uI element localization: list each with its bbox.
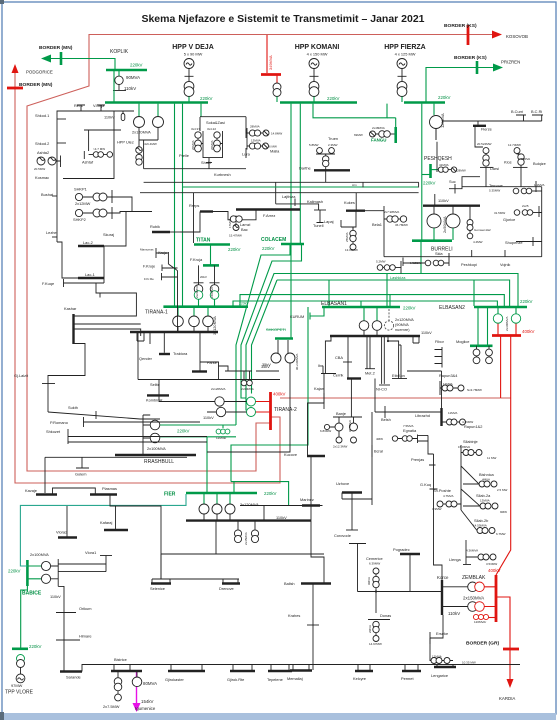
svg-text:ELBASAN2: ELBASAN2 xyxy=(439,305,465,311)
svg-text:F.Kuqe: F.Kuqe xyxy=(42,281,54,286)
bus F.KRUJA 220 xyxy=(203,264,219,267)
svg-text:KURUM: KURUM xyxy=(290,314,304,319)
svg-text:110kV: 110kV xyxy=(203,415,214,420)
svg-text:31.5MW: 31.5MW xyxy=(494,211,505,215)
bus F.ARREZ xyxy=(236,208,300,210)
component Darsi xyxy=(483,148,489,154)
wire border MN arrow line (outer red loop to Tirana-2) xyxy=(15,71,280,483)
component Gomsen1&2 xyxy=(469,206,471,219)
svg-text:Cerrik: Cerrik xyxy=(333,373,343,378)
svg-text:nuemre): nuemre) xyxy=(395,327,410,332)
bus Fierze 110 xyxy=(443,120,542,122)
svg-text:Ballsh: Ballsh xyxy=(284,581,295,586)
wire Vlora2 link xyxy=(66,506,68,538)
svg-text:Kajan: Kajan xyxy=(314,386,324,391)
transformer F.Kruja 20kV pair xyxy=(194,265,220,284)
transformer 2x120MVA Ulez circles xyxy=(134,117,145,128)
wire Vlore links xyxy=(58,556,106,572)
tick Shupenze xyxy=(532,237,534,246)
wire green south (Kurum-Fier) xyxy=(231,307,308,505)
wire Peshqesh-VDeja 220 link xyxy=(183,186,419,188)
wire Uznove spine xyxy=(342,412,372,505)
wire Selite line xyxy=(138,332,280,380)
svg-text:EtbKon: EtbKon xyxy=(392,373,405,378)
svg-text:90MVA: 90MVA xyxy=(126,75,140,80)
svg-text:220kV: 220kV xyxy=(29,644,42,649)
wire Kashar lines xyxy=(48,293,141,384)
wire Selenice trunk xyxy=(152,579,239,584)
svg-text:90+100MVA: 90+100MVA xyxy=(295,354,299,370)
bus BABICE 220 vertical xyxy=(26,560,29,586)
svg-text:20MVA: 20MVA xyxy=(191,140,195,150)
transformer Tirana2 bank2 110 side xyxy=(216,407,225,416)
svg-text:220kV: 220kV xyxy=(177,429,190,434)
svg-text:FANGU: FANGU xyxy=(371,138,386,143)
bottom band xyxy=(2,713,556,720)
wire Darsi-Klos-Bulqize line xyxy=(462,165,542,187)
bus TITAN 220 xyxy=(194,243,230,246)
svg-text:2x25: 2x25 xyxy=(522,204,529,208)
reactor Tirana2 12MVar coil xyxy=(222,425,224,428)
wire Vlore spine south xyxy=(58,586,64,671)
component 28MVA Malla cluster xyxy=(245,129,247,158)
wire border KS / Kosovo line (inner red loop) xyxy=(27,35,494,472)
wire Babice-TPP Vlore xyxy=(21,586,28,648)
bus Tepelene xyxy=(268,670,292,672)
svg-text:2x100MVA: 2x100MVA xyxy=(30,552,49,557)
svg-text:Kruje: Kruje xyxy=(158,250,167,255)
component Sllab-2b row xyxy=(477,528,483,534)
bus Met.2 xyxy=(365,368,375,370)
transformer Moglice circles xyxy=(477,346,490,357)
svg-text:Prenjas: Prenjas xyxy=(411,457,424,462)
svg-text:KOSOVOB: KOSOVOB xyxy=(506,34,528,39)
svg-text:Sarande: Sarande xyxy=(66,675,81,680)
wire VDeja Soka stub xyxy=(200,104,202,117)
svg-text:PODGORICE: PODGORICE xyxy=(26,70,53,75)
svg-text:BABICE: BABICE xyxy=(22,591,42,597)
wire Ibe line xyxy=(321,337,336,374)
wire Prizren border line xyxy=(426,68,494,103)
transformer Zemblak 2x150 xyxy=(442,587,468,607)
tick Kajan xyxy=(323,393,325,409)
svg-text:14.97MW: 14.97MW xyxy=(369,642,382,646)
arrowhead KOSOVOB right xyxy=(492,31,502,39)
svg-text:28MVA: 28MVA xyxy=(250,125,260,129)
bus ELBASAN1 220kV xyxy=(322,306,400,309)
svg-text:2x45MVA: 2x45MVA xyxy=(244,532,248,545)
wire Lac1 down to Kashar xyxy=(96,283,100,293)
tick KURUM xyxy=(309,313,311,320)
svg-text:Shutri: Shutri xyxy=(201,160,211,165)
wire Rreps trunk xyxy=(180,210,256,233)
bus Kavaje xyxy=(36,493,57,495)
transformer Komani 400/220 xyxy=(276,75,278,83)
svg-text:4MVA: 4MVA xyxy=(482,478,490,482)
wire 154kV Igumenice xyxy=(136,672,138,704)
component Egnatia xyxy=(392,436,397,441)
bus Babice 110 bar xyxy=(57,559,59,586)
wire Darthe down xyxy=(325,170,327,182)
tick G.Kuq xyxy=(429,465,438,489)
svg-text:Traktora: Traktora xyxy=(173,351,188,356)
component Sllabinje row xyxy=(463,450,469,456)
border GR tick xyxy=(503,648,519,651)
reactor small 110 xyxy=(121,114,125,121)
tick Prizren xyxy=(476,61,479,74)
component Banje xyxy=(350,379,352,418)
wire Rrashbull greens xyxy=(160,425,236,493)
tick P.Romano xyxy=(83,417,85,427)
svg-text:COLACEM: COLACEM xyxy=(261,237,286,243)
svg-text:6.39MW: 6.39MW xyxy=(369,562,380,566)
svg-text:Bistrice: Bistrice xyxy=(114,657,127,662)
bus Klos tick xyxy=(513,166,528,168)
svg-text:9MW: 9MW xyxy=(500,510,507,514)
svg-text:220kV: 220kV xyxy=(8,569,21,574)
svg-text:Permet: Permet xyxy=(401,676,414,681)
svg-text:F.Arrez: F.Arrez xyxy=(263,213,275,218)
wire Ballsh-Memaliaj xyxy=(312,584,314,671)
svg-text:4.4MW: 4.4MW xyxy=(473,240,483,244)
bus TPP VLORE 220 xyxy=(12,647,28,650)
wire Fangu riser xyxy=(387,118,396,127)
svg-text:35kV: 35kV xyxy=(261,364,270,369)
wire Kurbnesh line xyxy=(140,169,419,210)
svg-text:Bac: Bac xyxy=(241,227,248,232)
transformer Bistrice xyxy=(117,671,119,678)
tick Suc xyxy=(454,184,456,194)
svg-text:NI-CO: NI-CO xyxy=(376,387,387,392)
bus Vlora1 xyxy=(100,555,112,557)
wire Belsh line xyxy=(375,411,420,413)
svg-text:400kV: 400kV xyxy=(522,329,535,334)
svg-text:B.Curri: B.Curri xyxy=(511,109,523,114)
bus Drenove xyxy=(222,582,240,584)
svg-text:BORDER (KS): BORDER (KS) xyxy=(454,55,487,61)
svg-text:Vlora2: Vlora2 xyxy=(56,530,67,535)
svg-text:Lapaj: Lapaj xyxy=(324,219,334,224)
svg-text:2x48MVA: 2x48MVA xyxy=(372,126,385,130)
wire Elbasan 110 feeders xyxy=(348,337,419,384)
wire SHKP to Rubik line xyxy=(112,197,152,213)
tick Lezhe xyxy=(52,236,57,238)
bus Vlora2 xyxy=(58,536,77,538)
tick Egnatia xyxy=(417,435,419,444)
transformer Koplik 90MVA xyxy=(118,71,120,76)
svg-text:220kV: 220kV xyxy=(130,63,143,68)
svg-text:Kukes: Kukes xyxy=(344,200,355,205)
svg-text:>4.7 MW: >4.7 MW xyxy=(93,147,105,151)
svg-text:TPP VLORE: TPP VLORE xyxy=(5,690,34,696)
svg-text:400kV: 400kV xyxy=(273,392,286,397)
tick Peshkopi xyxy=(471,250,473,257)
svg-text:2.3MW: 2.3MW xyxy=(328,143,338,147)
wire Tirana1-Elbasan1 line a xyxy=(240,295,504,307)
bus CBA xyxy=(343,361,352,363)
bus Burreli 110 xyxy=(423,204,480,206)
svg-text:Prelle: Prelle xyxy=(179,153,189,158)
svg-text:Golem: Golem xyxy=(75,472,86,477)
wire Fierze-Darsi drop xyxy=(475,127,483,147)
bus Elbasan 110 xyxy=(330,335,420,337)
bus Kashar 110 vertical xyxy=(72,314,74,344)
wire Marinez line xyxy=(240,506,323,521)
svg-text:110kV: 110kV xyxy=(421,330,432,335)
wire Kucove-Ballsh xyxy=(310,456,312,521)
svg-text:Orikum: Orikum xyxy=(79,606,92,611)
svg-text:CBA: CBA xyxy=(335,355,343,360)
wire Ternove link xyxy=(532,190,542,192)
svg-text:Drenove: Drenove xyxy=(219,586,234,591)
arrowhead Podgorice left xyxy=(41,55,51,63)
svg-text:TIRANA-1: TIRANA-1 xyxy=(145,310,168,316)
bus Permet xyxy=(402,670,421,672)
wire P.Romano line xyxy=(84,421,201,423)
svg-text:220kV: 220kV xyxy=(228,247,241,252)
svg-text:36.78MW: 36.78MW xyxy=(395,223,408,227)
svg-text:ZEMBLAK: ZEMBLAK xyxy=(462,575,486,581)
svg-text:Bulqize: Bulqize xyxy=(533,161,546,166)
component Bida row xyxy=(425,260,431,266)
reactor Zemblak 120MVAr red coil xyxy=(486,617,496,619)
tick Skuraj xyxy=(125,235,127,243)
svg-text:2.5 MW: 2.5 MW xyxy=(497,488,508,492)
component Lashkiza gens xyxy=(377,265,383,271)
bus V.DEJA 220kV xyxy=(105,101,208,104)
svg-text:4.36MVA: 4.36MVA xyxy=(466,549,478,553)
svg-text:13MVA: 13MVA xyxy=(480,499,490,503)
tick Bcral xyxy=(371,445,373,457)
svg-text:Vojnik: Vojnik xyxy=(500,262,510,267)
svg-text:Donas: Donas xyxy=(380,613,391,618)
svg-text:25MVA: 25MVA xyxy=(345,232,349,242)
wire Komani-Fierza U link xyxy=(313,104,387,118)
svg-text:4 x 150 MW: 4 x 150 MW xyxy=(307,52,328,57)
bus Ballsh xyxy=(301,582,331,584)
svg-text:Ashtaf: Ashtaf xyxy=(82,160,94,165)
tick Orikum xyxy=(56,612,76,614)
svg-text:Gjorice: Gjorice xyxy=(503,217,515,222)
svg-text:7.5MVA: 7.5MVA xyxy=(403,424,413,428)
wire Rapun34 link xyxy=(407,371,442,408)
svg-text:14.8MW: 14.8MW xyxy=(271,132,282,136)
svg-text:12.73MW: 12.73MW xyxy=(508,143,521,147)
svg-text:Erseke: Erseke xyxy=(436,631,448,636)
svg-text:V.Deja: V.Deja xyxy=(93,103,105,108)
component Lengarice gens xyxy=(431,658,437,664)
arrowhead KARDIA down xyxy=(507,679,514,688)
wire Uznove risers xyxy=(342,493,352,531)
bus Sarande xyxy=(60,670,82,672)
wire Babice circles stubs xyxy=(51,566,59,579)
wire VDeja110-Kosmac line xyxy=(63,111,114,179)
svg-text:Uzhove: Uzhove xyxy=(336,481,349,486)
wire Skuraj hang xyxy=(104,211,126,246)
svg-text:220kV: 220kV xyxy=(262,246,275,251)
component Llenga xyxy=(465,540,467,564)
svg-text:Corovode: Corovode xyxy=(334,533,351,538)
svg-text:41MVA: 41MVA xyxy=(439,163,449,167)
bus ZEMBLAK 400kV xyxy=(495,575,498,622)
svg-text:ELBASAN1: ELBASAN1 xyxy=(321,301,347,307)
tick F.Kruje xyxy=(161,265,163,272)
generator HPP Ulez xyxy=(136,147,143,154)
svg-text:4.7MVA: 4.7MVA xyxy=(443,494,453,498)
wire Shkoder spine xyxy=(56,111,58,243)
svg-text:2x150MVA: 2x150MVA xyxy=(463,596,484,601)
svg-text:80MVA: 80MVA xyxy=(143,681,157,686)
svg-text:Bcral: Bcral xyxy=(374,449,383,454)
svg-text:9MVA: 9MVA xyxy=(367,577,371,585)
wire Kruje cluster xyxy=(156,253,178,332)
svg-text:Lura: Lura xyxy=(242,152,251,157)
svg-text:11MVA: 11MVA xyxy=(448,411,457,415)
wire Cerrik trunk xyxy=(374,379,376,413)
svg-text:220kV: 220kV xyxy=(200,96,213,101)
wire Kukes down Lapaj xyxy=(341,211,356,230)
tick Qender xyxy=(163,332,165,353)
svg-text:Banje: Banje xyxy=(336,411,346,416)
bus Soka ticks xyxy=(203,131,223,152)
svg-text:Ashta2: Ashta2 xyxy=(37,150,49,155)
svg-text:Skuraj: Skuraj xyxy=(103,232,114,237)
svg-text:Memaliaj: Memaliaj xyxy=(287,676,303,681)
svg-text:2x7.5MW: 2x7.5MW xyxy=(103,704,120,709)
svg-text:Rapun1&2: Rapun1&2 xyxy=(464,424,482,429)
svg-text:Shupenze: Shupenze xyxy=(505,240,523,245)
svg-text:5.8MW: 5.8MW xyxy=(309,143,319,147)
bus SHKOPET 220 xyxy=(275,337,293,340)
svg-text:20kV: 20kV xyxy=(200,275,207,279)
svg-text:Kosmac: Kosmac xyxy=(35,175,49,180)
wire border MN Podgorice green xyxy=(44,59,115,71)
tick Ibe xyxy=(322,366,324,374)
svg-text:Truen: Truen xyxy=(328,136,338,141)
svg-text:2x300MVA: 2x300MVA xyxy=(505,317,509,331)
wire Peshkopi line xyxy=(384,256,542,258)
bus TIRANA-1 220kV xyxy=(163,305,248,308)
svg-text:Ternove: Ternove xyxy=(489,183,503,188)
svg-text:Nx3.78MW: Nx3.78MW xyxy=(467,388,482,392)
wire Shkozet double lines xyxy=(68,437,207,443)
wire Pogradec link xyxy=(409,554,411,592)
bus Pogradec xyxy=(400,553,420,555)
svg-text:Malla: Malla xyxy=(270,149,280,154)
svg-text:BORDER (MN): BORDER (MN) xyxy=(19,82,53,88)
svg-text:Mamurras: Mamurras xyxy=(140,248,154,252)
svg-text:2x120MVA: 2x120MVA xyxy=(132,130,151,135)
svg-text:Igumenice: Igumenice xyxy=(135,706,156,711)
svg-text:120MVAr: 120MVAr xyxy=(474,620,486,624)
svg-text:Rapun3&4: Rapun3&4 xyxy=(439,373,458,378)
component Lamzi xyxy=(235,216,237,220)
bus Fierze short xyxy=(473,125,486,127)
bus SHKP ticks xyxy=(111,190,113,219)
svg-text:110kV: 110kV xyxy=(276,515,287,520)
tick Shutri xyxy=(206,162,212,164)
wire Ashtaf branch xyxy=(84,130,121,151)
component Truen xyxy=(317,148,323,154)
svg-text:Belsh: Belsh xyxy=(381,417,391,422)
wire Golem line xyxy=(45,457,187,493)
bus MOGLICE 220 xyxy=(470,344,493,347)
svg-text:2x12.3MW: 2x12.3MW xyxy=(333,445,348,449)
tick Lashkiza bus xyxy=(400,261,402,274)
svg-text:220kV: 220kV xyxy=(520,299,533,304)
svg-text:Cemerice: Cemerice xyxy=(366,556,383,561)
transformer Tirana2 bank1 110 side xyxy=(215,397,224,406)
bus Cerrik xyxy=(347,377,361,379)
bus PESHQESH green vertical xyxy=(429,164,432,178)
svg-text:TITAN: TITAN xyxy=(196,238,211,244)
svg-text:KARDIA: KARDIA xyxy=(499,696,515,701)
svg-text:SHKOPETI: SHKOPETI xyxy=(266,327,286,332)
svg-text:F.Kruja: F.Kruja xyxy=(190,257,203,262)
tick Lajthiza xyxy=(294,199,296,207)
svg-text:10.35 MW: 10.35 MW xyxy=(462,661,476,665)
component Lura rows xyxy=(249,130,255,136)
bus Kucove xyxy=(307,455,325,457)
tick FANGU green xyxy=(394,127,397,143)
svg-text:Gjirok.Rte: Gjirok.Rte xyxy=(227,677,244,682)
svg-text:B.C.Ri: B.C.Ri xyxy=(531,109,542,114)
svg-text:F.Kr.Re: F.Kr.Re xyxy=(144,277,154,281)
bus Librazhd vertical xyxy=(440,408,442,426)
bus Korce vertical xyxy=(441,580,443,615)
svg-text:Gjirokaster: Gjirokaster xyxy=(165,677,185,682)
svg-text:6.83MW: 6.83MW xyxy=(320,429,331,433)
component Donas trafo xyxy=(373,621,379,627)
svg-text:2x100MVA: 2x100MVA xyxy=(147,446,166,451)
tick ShPoshte xyxy=(460,498,462,510)
transformer Fierza 120MVA xyxy=(433,104,435,115)
svg-text:97MW: 97MW xyxy=(11,683,23,688)
svg-text:11 MW: 11 MW xyxy=(487,456,496,460)
bus Lac-1 xyxy=(78,277,104,279)
tick Krahes xyxy=(307,624,319,626)
tick Shkod.1 xyxy=(57,118,66,120)
bus FIER 220kV xyxy=(186,492,257,495)
svg-text:5.2MW: 5.2MW xyxy=(376,260,386,264)
wire Librazhd feed xyxy=(420,411,441,413)
svg-text:Shkozet: Shkozet xyxy=(46,429,61,434)
svg-text:120MVA: 120MVA xyxy=(440,113,445,128)
wire Ulez bus drop to Kurbnesh line xyxy=(144,140,194,243)
tick Erseke xyxy=(429,632,431,644)
component Gjorice xyxy=(514,210,520,216)
svg-text:Arn: Arn xyxy=(352,183,357,187)
bus Ashtaf tick xyxy=(83,151,85,159)
wire line y280 Elbasan1 xyxy=(328,280,330,306)
transformer Fier 3x120MVA xyxy=(204,493,230,504)
wire Kavaje-Plasmas staple xyxy=(53,488,96,495)
border KS tick xyxy=(467,25,470,45)
wire line 4 to Tirana2 xyxy=(252,280,510,394)
svg-text:PESHQESH: PESHQESH xyxy=(424,156,452,162)
svg-text:Gomsen1&2: Gomsen1&2 xyxy=(474,228,491,232)
svg-text:Selenice: Selenice xyxy=(150,586,165,591)
svg-text:Klos: Klos xyxy=(504,160,512,165)
generator Soka a xyxy=(195,132,201,138)
svg-text:Shkod.1: Shkod.1 xyxy=(35,113,49,118)
wire right spine Bulqize-Shupenze xyxy=(539,187,542,257)
svg-text:220kV: 220kV xyxy=(438,95,451,100)
svg-text:Bushat: Bushat xyxy=(41,192,54,197)
component FANGU plant xyxy=(370,131,376,137)
wire Fier-Selenice xyxy=(161,521,324,579)
svg-text:Skla: Skla xyxy=(435,251,443,256)
